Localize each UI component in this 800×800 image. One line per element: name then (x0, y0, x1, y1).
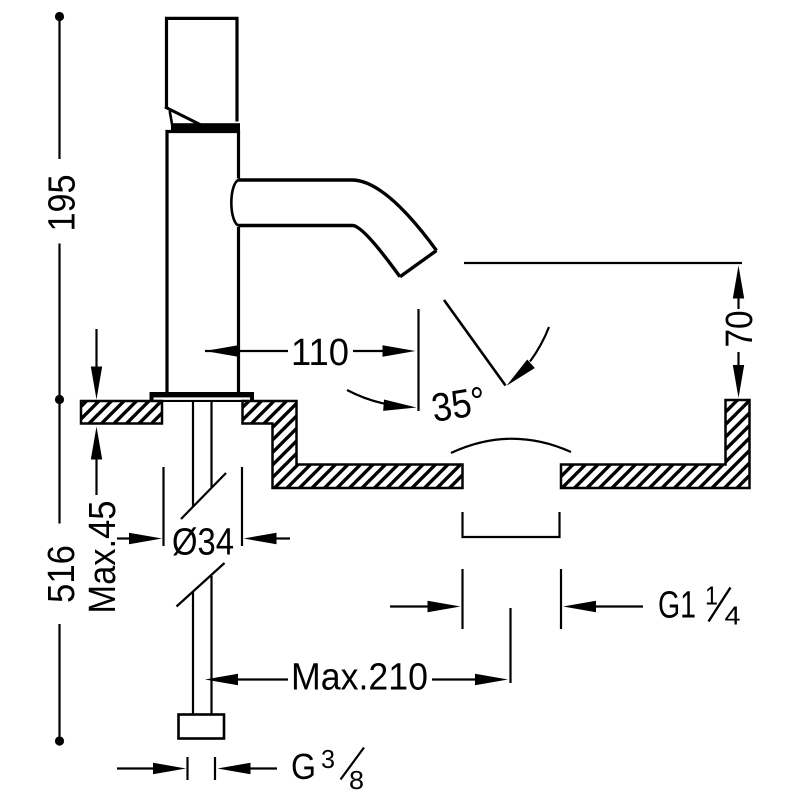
drain U profile (463, 512, 560, 537)
basin curve (451, 439, 571, 453)
svg-text:8: 8 (349, 765, 364, 795)
svg-text:195: 195 (42, 175, 84, 232)
dimension G 3/8 (117, 757, 277, 780)
svg-text:G: G (291, 746, 316, 787)
dimension 195/516 main vertical line (58, 17, 60, 742)
handle base thick ring (171, 123, 240, 130)
svg-text:Max.210: Max.210 (291, 657, 428, 699)
base plate (150, 392, 255, 402)
counter right post hatched (561, 400, 750, 488)
dimension Max.45 (95, 329, 97, 495)
supply pipe upper segment (193, 401, 212, 507)
angle arc left (347, 390, 386, 404)
pipe break slash 2 (177, 563, 225, 607)
svg-text:Ø34: Ø34 (172, 522, 234, 564)
dimension O34 (117, 467, 290, 546)
supply pipe lower segment (193, 576, 212, 715)
svg-text:1: 1 (705, 581, 718, 611)
counter right step hatched (243, 401, 463, 488)
dimension 70 (737, 297, 739, 366)
svg-text:35°: 35° (429, 379, 489, 431)
dot bottom (55, 736, 64, 745)
faucet body (167, 132, 239, 393)
counter left slab hatched (81, 401, 162, 424)
svg-text:516: 516 (41, 545, 83, 603)
spout connection arc (231, 180, 238, 226)
dimension G1 1/4 (390, 569, 643, 629)
svg-text:G1: G1 (658, 585, 696, 627)
dimension Max.210 (238, 608, 511, 683)
faucet handle (167, 18, 238, 121)
pipe break slash 1 (181, 473, 226, 519)
svg-text:70: 70 (719, 311, 761, 348)
dot top (55, 12, 64, 21)
35 degree stream line (444, 300, 506, 386)
svg-text:3: 3 (321, 744, 335, 774)
supply nut (179, 715, 225, 739)
spout bottom outline (239, 226, 401, 277)
spout top outline (239, 180, 437, 251)
handle lever diagonal (165, 107, 203, 126)
handle notch line (170, 111, 173, 128)
angle arc right (530, 327, 549, 362)
dot middle (55, 395, 64, 404)
svg-text:110: 110 (291, 332, 349, 374)
spout tip cut line (400, 251, 437, 277)
svg-text:4: 4 (725, 601, 741, 631)
dimension 110 (205, 309, 419, 411)
spout height reference line (464, 262, 742, 264)
svg-text:Max.45: Max.45 (82, 501, 124, 614)
